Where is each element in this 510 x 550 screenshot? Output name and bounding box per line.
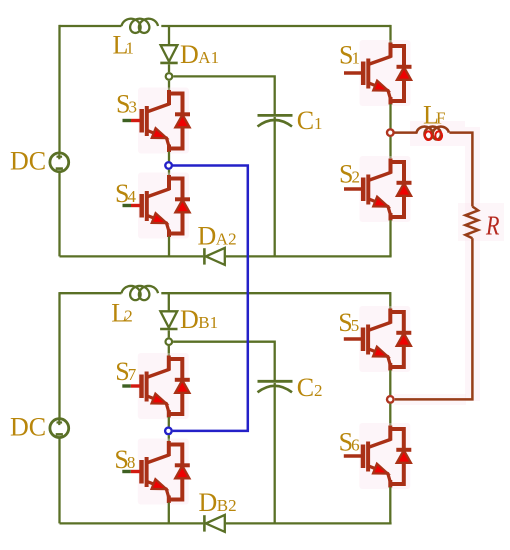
wire DA1 branch <box>168 26 170 45</box>
label S8 <box>114 445 135 474</box>
svg-text:A2: A2 <box>216 229 237 248</box>
svg-text:2: 2 <box>352 168 361 187</box>
DC source 2 <box>50 419 69 438</box>
svg-text:3: 3 <box>129 97 138 116</box>
capacitor C2 <box>258 381 293 392</box>
wire S2 to bottom rail <box>389 220 391 256</box>
wire DA1 to node <box>168 64 170 72</box>
node B (blue, S7-S8 midpoint) <box>165 428 172 435</box>
label S7 <box>115 357 137 386</box>
wire bottom rail upper left <box>60 255 204 257</box>
wire C1 to bottom rail <box>274 117 276 256</box>
wire blue link (S3-S4 mid to S7-S8 mid) <box>173 166 248 431</box>
resistor R <box>465 207 478 239</box>
svg-text:1: 1 <box>126 39 135 58</box>
label S5 <box>338 308 359 337</box>
wire left rail lower bottom <box>58 438 60 523</box>
label DA1 <box>180 40 219 69</box>
load path halo <box>394 121 504 405</box>
wire S3 to blue node <box>168 152 170 162</box>
node LF junction <box>387 129 394 136</box>
IGBT S3 <box>123 88 191 154</box>
svg-text:B2: B2 <box>217 496 237 515</box>
label DA2 <box>198 221 237 250</box>
IGBT S4 <box>123 173 191 239</box>
diode DB2 <box>204 515 224 532</box>
wire node to S7 <box>168 346 170 356</box>
wire node to S3 <box>168 81 170 91</box>
wire right leg top lower <box>389 292 391 308</box>
wire bottom rail upper right <box>226 255 392 257</box>
wire S5 to load node <box>389 370 391 395</box>
wire left rail upper <box>58 25 60 153</box>
svg-text:7: 7 <box>128 365 137 384</box>
wire left rail upper lower part <box>58 172 60 256</box>
wire LF node to coil <box>395 131 418 134</box>
capacitor C1 <box>258 115 293 126</box>
svg-text:2: 2 <box>314 381 323 400</box>
label S2 <box>339 160 360 189</box>
svg-text:D: D <box>198 221 217 250</box>
wire node rail lower <box>173 342 275 380</box>
svg-text:D: D <box>180 305 199 334</box>
label S6 <box>339 428 360 457</box>
inductor L2 <box>122 286 159 300</box>
svg-text:B1: B1 <box>198 313 218 332</box>
svg-text:D: D <box>199 488 218 517</box>
svg-text:6: 6 <box>351 436 360 455</box>
svg-text:D: D <box>180 40 199 69</box>
svg-text:DC: DC <box>10 147 46 176</box>
IGBT S1 <box>344 40 412 106</box>
svg-text:1: 1 <box>352 49 361 68</box>
svg-text:C: C <box>297 106 314 135</box>
wire S6 to bottom rail <box>389 487 391 523</box>
IGBT S2 <box>344 156 412 222</box>
wire bottom rail lower left <box>60 522 204 524</box>
wire node rail upper <box>173 76 274 114</box>
svg-text:F: F <box>436 108 445 127</box>
inductor LF <box>417 127 449 140</box>
IGBT S8 <box>122 439 190 505</box>
wire R to load node <box>395 238 473 399</box>
wire S8 to bottom rail <box>168 503 170 524</box>
svg-text:DC: DC <box>10 413 46 442</box>
wire load node to S6 <box>389 404 391 426</box>
label DC 2 <box>10 413 46 442</box>
label C1 <box>297 106 323 135</box>
IGBT S7 <box>122 353 190 419</box>
label C2 <box>297 373 323 402</box>
wire DB1 to node <box>168 330 170 337</box>
wire bottom rail lower right <box>226 522 392 524</box>
wire top rail lower left <box>60 292 122 294</box>
wire DB1 branch <box>168 293 170 311</box>
wire right leg top upper <box>389 25 391 43</box>
node load junction lower <box>387 396 394 403</box>
label L1 <box>113 31 135 60</box>
wire S4 to bottom rail <box>168 237 170 257</box>
svg-text:8: 8 <box>127 453 135 472</box>
label L2 <box>111 299 133 328</box>
label DB1 <box>180 305 218 334</box>
node A (blue, S3-S4 midpoint) <box>165 162 172 169</box>
svg-text:C: C <box>297 373 314 402</box>
wire S7 to blue node <box>168 417 170 427</box>
IGBT S6 <box>344 423 412 489</box>
diode DB1 <box>160 311 177 329</box>
label DB2 <box>199 488 237 517</box>
wire blue node to S4 <box>168 170 170 176</box>
label S1 <box>339 41 360 70</box>
wire top rail upper with corner <box>60 25 122 27</box>
svg-text:A1: A1 <box>198 48 219 67</box>
label S3 <box>116 89 137 118</box>
inductor L1 <box>122 19 159 33</box>
IGBT S5 <box>344 306 412 372</box>
svg-text:1: 1 <box>314 114 323 133</box>
wire C2 to bottom rail <box>274 383 276 523</box>
svg-text:R: R <box>485 211 500 241</box>
label DC 1 <box>10 147 46 176</box>
wire top rail lower right <box>161 292 390 294</box>
label LF <box>423 100 445 129</box>
svg-text:4: 4 <box>128 187 137 206</box>
wire left rail lower <box>58 292 60 418</box>
diode DA2 <box>204 248 224 265</box>
wire LF node to S2 <box>389 137 391 159</box>
label S4 <box>115 179 137 208</box>
diode DA1 <box>160 45 177 63</box>
node under DA1 <box>166 73 173 80</box>
label R <box>485 211 500 241</box>
svg-text:2: 2 <box>124 307 133 326</box>
wire S1 to LF node <box>389 104 391 129</box>
wire top rail upper right <box>161 25 390 27</box>
wire LF coil to corner <box>449 133 472 207</box>
node under DB1 <box>166 338 173 345</box>
DC source 1 <box>50 153 69 172</box>
wire blue node to S8 <box>168 435 170 441</box>
svg-text:5: 5 <box>351 316 360 335</box>
